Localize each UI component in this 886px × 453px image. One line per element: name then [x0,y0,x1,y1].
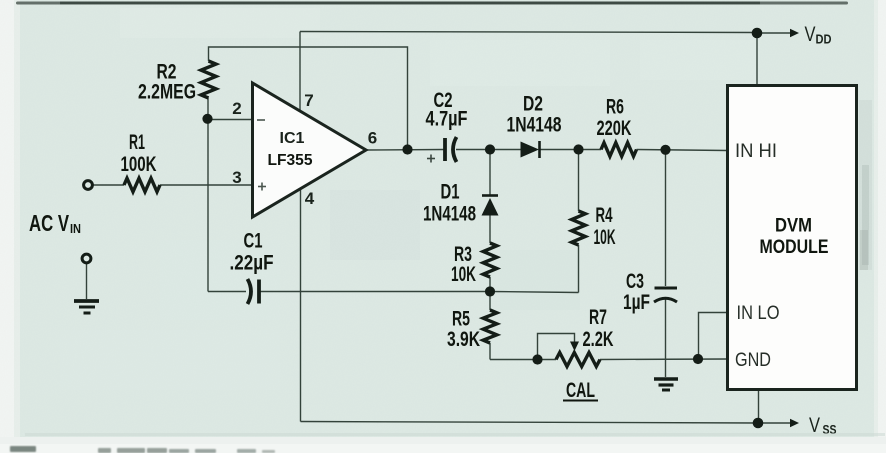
svg-text:2.2K: 2.2K [583,328,614,351]
svg-text:D1: D1 [441,181,460,204]
svg-text:1N4148: 1N4148 [507,114,562,137]
svg-text:IC1: IC1 [280,130,305,147]
svg-text:AC V: AC V [29,210,69,236]
svg-text:IN: IN [70,221,81,236]
svg-text:GND: GND [735,349,771,371]
svg-text:D2: D2 [523,93,543,116]
svg-text:R1: R1 [129,131,145,154]
svg-text:2.2MEG: 2.2MEG [138,81,196,104]
svg-text:V: V [805,22,817,46]
svg-text:IN HI: IN HI [735,140,777,162]
svg-text:LF355: LF355 [268,152,313,169]
svg-text:1µF: 1µF [623,291,650,314]
svg-text:1N4148: 1N4148 [423,203,476,226]
svg-text:3.9K: 3.9K [447,328,480,351]
svg-text:.22µF: .22µF [230,252,274,275]
svg-text:C3: C3 [626,270,644,293]
svg-text:220K: 220K [597,117,632,140]
svg-text:MODULE: MODULE [760,236,829,258]
svg-text:DVM: DVM [775,215,812,237]
svg-text:7: 7 [304,91,313,110]
svg-text:R7: R7 [589,306,607,329]
svg-text:3: 3 [232,168,241,187]
svg-text:4: 4 [305,189,315,208]
svg-text:4.7µF: 4.7µF [426,108,468,131]
svg-text:CAL: CAL [566,379,595,402]
svg-text:100K: 100K [121,153,157,176]
svg-text:R4: R4 [596,204,613,227]
svg-text:IN LO: IN LO [737,302,780,324]
svg-text:R6: R6 [606,96,624,119]
svg-text:DD: DD [816,32,832,47]
svg-text:10K: 10K [451,263,476,286]
svg-text:C1: C1 [244,230,263,253]
svg-text:6: 6 [368,129,377,148]
svg-text:10K: 10K [594,226,616,249]
svg-text:2: 2 [232,99,241,118]
